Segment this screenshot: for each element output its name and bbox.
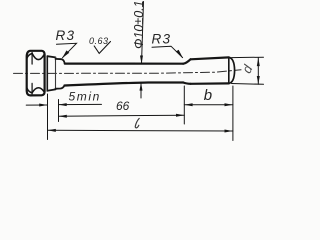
svg-text:b: b — [204, 87, 212, 104]
svg-text:Φ10±0.1: Φ10±0.1 — [132, 0, 146, 49]
svg-text:R3: R3 — [152, 31, 172, 46]
svg-text:5min: 5min — [69, 90, 101, 104]
svg-text:66: 66 — [116, 99, 130, 113]
svg-text:R3: R3 — [56, 28, 76, 43]
svg-text:0.63: 0.63 — [89, 36, 109, 46]
